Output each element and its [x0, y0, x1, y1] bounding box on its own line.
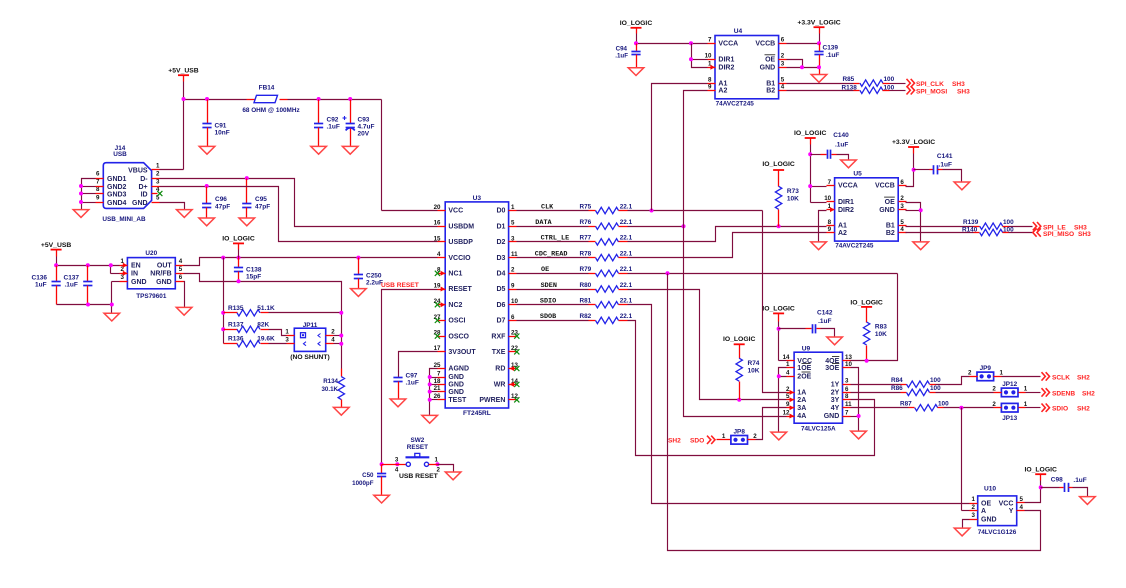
junction U9 gnd: [857, 414, 861, 418]
svg-text:R86: R86: [891, 385, 903, 392]
svg-text:1OE: 1OE: [797, 365, 811, 372]
ground: [954, 528, 970, 536]
svg-text:R80: R80: [580, 282, 592, 289]
junction U10 vcc: [1039, 485, 1043, 489]
no-connect U3 WR: [510, 382, 520, 387]
junction IO_LOGIC: [221, 256, 360, 260]
svg-text:C142: C142: [817, 310, 833, 317]
junction U20 in: [54, 263, 113, 267]
svg-text:SCLK: SCLK: [1052, 374, 1070, 381]
ground: [334, 407, 350, 415]
svg-text:GND: GND: [156, 279, 172, 286]
svg-text:DIR1: DIR1: [718, 57, 734, 64]
ground: [351, 289, 367, 297]
svg-text:+3.3V_LOGIC: +3.3V_LOGIC: [797, 19, 840, 26]
svg-text:PWREN: PWREN: [479, 397, 505, 404]
svg-text:DIR1: DIR1: [838, 199, 854, 206]
svg-text:USBDM: USBDM: [448, 223, 474, 230]
svg-text:CLK: CLK: [541, 203, 554, 211]
junction CLK: [650, 209, 654, 213]
svg-text:82K: 82K: [257, 321, 269, 328]
svg-text:JP12: JP12: [1002, 381, 1017, 388]
junction DATA: [682, 224, 686, 228]
wire JP8 to U9 3A: [756, 408, 787, 440]
svg-text:1: 1: [435, 457, 439, 464]
svg-text:C93: C93: [358, 117, 370, 124]
svg-text:68 OHM @ 100MHz: 68 OHM @ 100MHz: [242, 107, 299, 114]
power flag +3.3V_LOGIC: [797, 19, 840, 43]
svg-text:D1: D1: [496, 223, 505, 230]
svg-text:6: 6: [781, 37, 785, 44]
svg-text:C138: C138: [246, 266, 262, 273]
svg-text:RESET: RESET: [407, 444, 428, 451]
power flag +5V_USB: [168, 67, 199, 99]
off-page SPI_MISO SH3: [1033, 228, 1091, 238]
svg-text:R79: R79: [580, 266, 592, 273]
wire SDIO to U10 A: [962, 408, 970, 511]
svg-text:7: 7: [96, 179, 100, 186]
ground: [913, 242, 929, 250]
svg-text:SPI_MISO: SPI_MISO: [1043, 231, 1074, 238]
svg-text:C50: C50: [362, 472, 374, 479]
svg-text:100: 100: [930, 385, 941, 392]
svg-text:22.1: 22.1: [620, 313, 633, 320]
no-connect U3 TXE: [514, 349, 519, 354]
svg-text:SDIO: SDIO: [1052, 406, 1068, 413]
wire U10 VCC: [1025, 488, 1041, 503]
off-page SDIO SH2: [1042, 404, 1091, 413]
svg-text:10K: 10K: [787, 195, 799, 202]
svg-text:U9: U9: [802, 346, 811, 353]
svg-text:SH2: SH2: [1082, 390, 1095, 397]
junction res bus: [221, 311, 225, 332]
ground: [422, 415, 438, 423]
svg-text:6: 6: [179, 274, 183, 281]
power flag IO_LOGIC: [762, 305, 795, 328]
junction SDIO: [959, 406, 963, 410]
svg-text:3: 3: [781, 61, 785, 68]
svg-text:R75: R75: [580, 203, 592, 210]
svg-text:C92: C92: [327, 117, 339, 124]
svg-text:GND: GND: [448, 374, 464, 381]
svg-text:4: 4: [786, 370, 790, 377]
junction U5 vcca: [808, 152, 812, 188]
svg-text:1Y: 1Y: [831, 381, 840, 388]
svg-text:USB: USB: [113, 151, 127, 158]
junction CTRL_LE: [777, 224, 781, 228]
svg-text:DATA: DATA: [535, 219, 552, 227]
resistor R76 / net DATA: [517, 219, 684, 229]
svg-text:WR: WR: [494, 382, 506, 389]
svg-text:74LVC125A: 74LVC125A: [801, 425, 836, 432]
wire JP13 out: [1026, 407, 1041, 409]
no-connect U3 OSCI: [435, 318, 440, 323]
jumper JP8: [717, 429, 758, 445]
svg-text:SH3: SH3: [957, 88, 970, 95]
wire U9 3OE gnd: [851, 368, 859, 417]
svg-text:22.1: 22.1: [620, 266, 633, 273]
svg-text:SH2: SH2: [1077, 374, 1090, 381]
svg-text:10nF: 10nF: [215, 130, 230, 137]
svg-text:SDOB: SDOB: [540, 313, 556, 321]
junction U3 gnd: [428, 375, 432, 402]
svg-text:A1: A1: [718, 80, 727, 87]
arrows U20: [123, 263, 128, 276]
svg-text:2Y: 2Y: [831, 390, 840, 397]
resistor R86 / net SDENB: [851, 385, 994, 396]
no-connect U3 NC1: [435, 271, 445, 276]
svg-text:SPI_MOSI: SPI_MOSI: [916, 88, 947, 95]
ground: [954, 182, 970, 190]
svg-text:VCC: VCC: [448, 208, 463, 215]
svg-text:100: 100: [884, 76, 895, 83]
svg-text:C96: C96: [215, 196, 227, 203]
svg-text:R76: R76: [580, 219, 592, 226]
off-page SPI_CLK SH3: [907, 79, 966, 88]
svg-text:22.1: 22.1: [620, 235, 633, 242]
wire resistor bus left: [223, 258, 225, 344]
svg-text:C95: C95: [255, 196, 267, 203]
capacitor C98: [1041, 476, 1088, 496]
svg-text:47pF: 47pF: [215, 204, 230, 211]
svg-text:2: 2: [992, 386, 996, 393]
svg-text:4.7uF: 4.7uF: [358, 124, 375, 131]
svg-text:9: 9: [708, 84, 712, 91]
ground: [811, 75, 827, 83]
svg-text:12: 12: [783, 409, 790, 416]
ground: [73, 210, 89, 218]
svg-text:IO_LOGIC: IO_LOGIC: [620, 20, 653, 27]
svg-text:6: 6: [845, 386, 849, 393]
svg-text:OE: OE: [981, 500, 991, 507]
svg-text:RD: RD: [495, 366, 505, 373]
svg-text:D0: D0: [496, 208, 505, 215]
no-connect U3 RXF: [514, 334, 519, 339]
ground: [374, 495, 390, 503]
svg-text:R134: R134: [323, 378, 338, 385]
junction U5 gnd: [919, 208, 923, 212]
svg-text:GND: GND: [879, 207, 895, 214]
svg-text:R85: R85: [843, 76, 855, 83]
junction D+: [205, 184, 209, 188]
svg-text:1: 1: [1024, 401, 1028, 408]
ground: [827, 337, 843, 345]
svg-text:JP8: JP8: [734, 429, 746, 436]
svg-text:C98: C98: [1051, 476, 1063, 483]
ground: [811, 242, 827, 250]
svg-text:30.1K: 30.1K: [321, 386, 338, 393]
svg-text:NC1: NC1: [448, 271, 462, 278]
svg-text:1000pF: 1000pF: [352, 480, 374, 487]
svg-text:R135: R135: [228, 305, 244, 312]
svg-text:GND4: GND4: [107, 200, 127, 207]
svg-text:Y: Y: [1009, 508, 1014, 515]
svg-text:2: 2: [156, 171, 160, 178]
arrow U5 DIR2: [830, 207, 835, 212]
svg-text:4Y: 4Y: [831, 405, 840, 412]
svg-text:SDO: SDO: [690, 438, 704, 445]
svg-text:GND: GND: [131, 279, 147, 286]
svg-text:5: 5: [781, 77, 785, 84]
svg-text:D2: D2: [496, 239, 505, 246]
svg-text:IO_LOGIC: IO_LOGIC: [723, 336, 756, 343]
svg-text:A: A: [981, 508, 986, 515]
svg-text:3: 3: [156, 179, 160, 186]
svg-text:1: 1: [972, 496, 976, 503]
wire U5 VCCB: [906, 170, 914, 187]
svg-text:2OE: 2OE: [797, 374, 811, 381]
capacitor C91: [202, 100, 229, 147]
svg-text:R137: R137: [228, 321, 244, 328]
svg-text:R136: R136: [228, 336, 244, 343]
wire OE to U9 4OE: [851, 274, 898, 361]
svg-text:6: 6: [900, 179, 904, 186]
svg-text:SDIO: SDIO: [540, 298, 556, 306]
wire U5 DIR2 gnd: [819, 211, 827, 242]
svg-text:GND3: GND3: [107, 191, 127, 198]
arrow U4 DIR2: [710, 65, 715, 70]
wire JP9 out: [1002, 376, 1041, 378]
svg-text:22.1: 22.1: [620, 282, 633, 289]
svg-text:R87: R87: [900, 400, 912, 407]
svg-text:5: 5: [511, 220, 515, 227]
svg-text:IO_LOGIC: IO_LOGIC: [850, 300, 883, 307]
svg-text:7: 7: [437, 370, 441, 377]
svg-text:C94: C94: [616, 45, 628, 52]
svg-text:18: 18: [434, 378, 441, 385]
svg-text:4: 4: [781, 84, 785, 91]
no-connect U3 PWREN: [514, 397, 519, 402]
svg-text:51.1K: 51.1K: [257, 305, 275, 312]
svg-text:1: 1: [285, 328, 289, 335]
svg-text:.1uF: .1uF: [327, 124, 340, 131]
svg-text:VBUS: VBUS: [128, 168, 148, 175]
svg-text:JP13: JP13: [1002, 415, 1017, 422]
svg-text:TPS79601: TPS79601: [136, 293, 167, 300]
svg-text:ID: ID: [141, 191, 148, 198]
svg-text:IO_LOGIC: IO_LOGIC: [222, 235, 255, 242]
wire U9 OE tie: [779, 368, 787, 432]
svg-text:22.1: 22.1: [620, 219, 633, 226]
resistor R140 / net SPI_MISO: [906, 227, 1033, 236]
svg-text:R81: R81: [580, 298, 592, 305]
svg-text:U10: U10: [984, 486, 996, 493]
svg-text:CTRL_LE: CTRL_LE: [541, 235, 570, 243]
svg-text:74AVC2T245: 74AVC2T245: [835, 243, 874, 250]
wire net D+: [160, 187, 438, 242]
wire U4 VCCB: [787, 43, 820, 45]
resistor R136: [224, 336, 287, 347]
svg-text:100: 100: [884, 84, 895, 91]
svg-text:47pF: 47pF: [255, 204, 270, 211]
wire U4 DIR tie: [692, 44, 708, 68]
svg-text:R84: R84: [891, 377, 903, 384]
wire U20 GND right: [184, 282, 185, 308]
wire divider right bus: [334, 313, 342, 369]
IC U5 74AVC2T245: [824, 171, 906, 250]
wire JP12 out: [1026, 392, 1041, 394]
wire net D-: [160, 179, 438, 227]
capacitor C137: [64, 266, 93, 305]
ground: [771, 432, 787, 440]
svg-text:C139: C139: [823, 44, 839, 51]
wire net NR/FB: [184, 274, 342, 313]
resistor R82 / net SDOB: [517, 313, 875, 455]
capacitor C95: [242, 179, 270, 218]
capacitor C96: [202, 187, 230, 218]
IC U9 74LVC125A: [783, 346, 853, 433]
svg-text:U20: U20: [145, 250, 157, 257]
capacitor C142: [779, 310, 835, 337]
svg-text:DIR2: DIR2: [718, 65, 734, 72]
svg-text:9: 9: [511, 282, 515, 289]
resistor R85 / net SPI_CLK: [787, 76, 906, 86]
svg-text:C141: C141: [937, 153, 953, 160]
svg-text:IO_LOGIC: IO_LOGIC: [794, 130, 827, 137]
junction OE: [666, 271, 670, 275]
svg-text:IO_LOGIC: IO_LOGIC: [762, 161, 795, 168]
svg-text:22.1: 22.1: [620, 203, 633, 210]
svg-text:7: 7: [828, 179, 832, 186]
jumper JP11: [285, 322, 335, 361]
wire IO to U5 VCCA: [811, 155, 827, 203]
ground: [445, 472, 461, 480]
wire SW2 gnd: [438, 465, 454, 472]
svg-text:3: 3: [285, 337, 289, 344]
svg-text:OE: OE: [765, 57, 775, 64]
ground: [177, 210, 193, 218]
svg-text:SH3: SH3: [1078, 231, 1091, 238]
svg-text:B2: B2: [886, 230, 895, 237]
svg-text:1: 1: [156, 162, 160, 169]
svg-text:2: 2: [968, 370, 972, 377]
svg-text:NC2: NC2: [448, 302, 462, 309]
junction SDEN: [737, 398, 741, 402]
ground: [628, 68, 644, 76]
svg-text:7: 7: [845, 409, 849, 416]
resistor R75 / net CLK: [517, 203, 763, 213]
svg-text:R82: R82: [580, 313, 592, 320]
svg-text:3A: 3A: [797, 405, 806, 412]
capacitor C141: [914, 153, 962, 182]
svg-text:SH2: SH2: [668, 438, 681, 445]
wire CLK to U4 A1: [652, 84, 708, 211]
wire OE to U10 Y: [668, 274, 1041, 551]
svg-text:U3: U3: [473, 195, 482, 202]
junction U4 vccb: [817, 41, 821, 45]
svg-text:D7: D7: [496, 318, 505, 325]
ground: [1080, 497, 1096, 505]
resistor R73 pull-up: [773, 170, 799, 227]
arrows U9 inputs: [790, 390, 795, 419]
pin stubs J14: [96, 170, 160, 203]
svg-text:OE: OE: [885, 199, 895, 206]
svg-text:5: 5: [900, 219, 904, 226]
svg-text:A1: A1: [838, 223, 847, 230]
junction D-: [245, 176, 249, 180]
svg-text:15pF: 15pF: [246, 273, 261, 280]
svg-text:.1uF: .1uF: [406, 379, 419, 386]
svg-text:1uF: 1uF: [35, 282, 47, 289]
svg-text:EN: EN: [131, 263, 141, 270]
svg-text:GND: GND: [448, 389, 464, 396]
wire net USB_RESET: [382, 290, 438, 465]
off-page SH2 SDO: [668, 436, 715, 445]
ground: [342, 146, 358, 154]
svg-text:SH3: SH3: [952, 81, 965, 88]
capacitor C138: [234, 258, 262, 282]
svg-text:D6: D6: [496, 302, 505, 309]
svg-text:C137: C137: [64, 275, 80, 282]
wire 3V3OUT: [399, 352, 438, 378]
svg-text:USBDP: USBDP: [448, 239, 473, 246]
capacitor C94: [615, 44, 640, 68]
svg-text:D4: D4: [496, 271, 505, 278]
resistor R74 pull-up: [734, 344, 760, 399]
label USB RESET: [381, 282, 419, 289]
no-connect U3 NC2: [435, 302, 445, 307]
svg-text:.1uF: .1uF: [65, 282, 78, 289]
svg-text:CDC_READ: CDC_READ: [535, 250, 568, 258]
wire U10 GND: [963, 520, 970, 528]
junction U9 4oe: [865, 359, 869, 363]
resistor R138 / net SPI_MOSI: [787, 84, 906, 93]
svg-text:74AVC2T245: 74AVC2T245: [716, 100, 755, 107]
junction +5V bus: [182, 97, 353, 101]
svg-text:(NO SHUNT): (NO SHUNT): [290, 354, 329, 361]
svg-text:C250: C250: [366, 272, 382, 279]
svg-text:22.1: 22.1: [620, 250, 633, 257]
svg-text:USB_MINI_AB: USB_MINI_AB: [102, 216, 146, 223]
svg-text:3V3OUT: 3V3OUT: [448, 349, 476, 356]
capacitor C250: [354, 258, 383, 289]
svg-text:C136: C136: [32, 275, 48, 282]
svg-text:74LVC1G126: 74LVC1G126: [978, 529, 1017, 536]
svg-text:OUT: OUT: [157, 263, 173, 270]
svg-text:+5V_USB: +5V_USB: [41, 242, 72, 249]
svg-text:AGND: AGND: [448, 366, 469, 373]
regulator U20 TPS79601: [121, 250, 183, 300]
ground: [841, 160, 857, 168]
svg-text:IO_LOGIC: IO_LOGIC: [1024, 466, 1057, 473]
wire +5V_USB bus: [160, 100, 438, 211]
svg-text:GND: GND: [448, 382, 464, 389]
svg-text:3Y: 3Y: [831, 397, 840, 404]
svg-text:2: 2: [781, 53, 785, 60]
svg-text:.1uF: .1uF: [835, 141, 848, 148]
svg-text:2A: 2A: [797, 397, 806, 404]
junction FB: [237, 279, 241, 283]
svg-text:19: 19: [434, 282, 441, 289]
svg-text:OSCO: OSCO: [448, 333, 469, 340]
svg-text:R77: R77: [580, 235, 592, 242]
svg-text:20: 20: [434, 204, 441, 211]
svg-text:A2: A2: [838, 230, 847, 237]
junction U4 vcca: [634, 41, 693, 45]
no-connect U3 RD: [510, 366, 520, 371]
svg-text:20V: 20V: [358, 131, 370, 138]
svg-text:TXE: TXE: [492, 349, 506, 356]
junction J14 gnd: [79, 184, 83, 204]
connector J14 USB_MINI_AB: [96, 145, 160, 223]
svg-text:2: 2: [786, 386, 790, 393]
svg-text:GND: GND: [981, 517, 997, 524]
junction U4 dir: [689, 57, 693, 61]
svg-text:10K: 10K: [748, 367, 760, 374]
capacitor C136: [32, 266, 61, 305]
svg-text:.1uF: .1uF: [939, 161, 952, 168]
no-connect J14 ID: [157, 191, 162, 196]
